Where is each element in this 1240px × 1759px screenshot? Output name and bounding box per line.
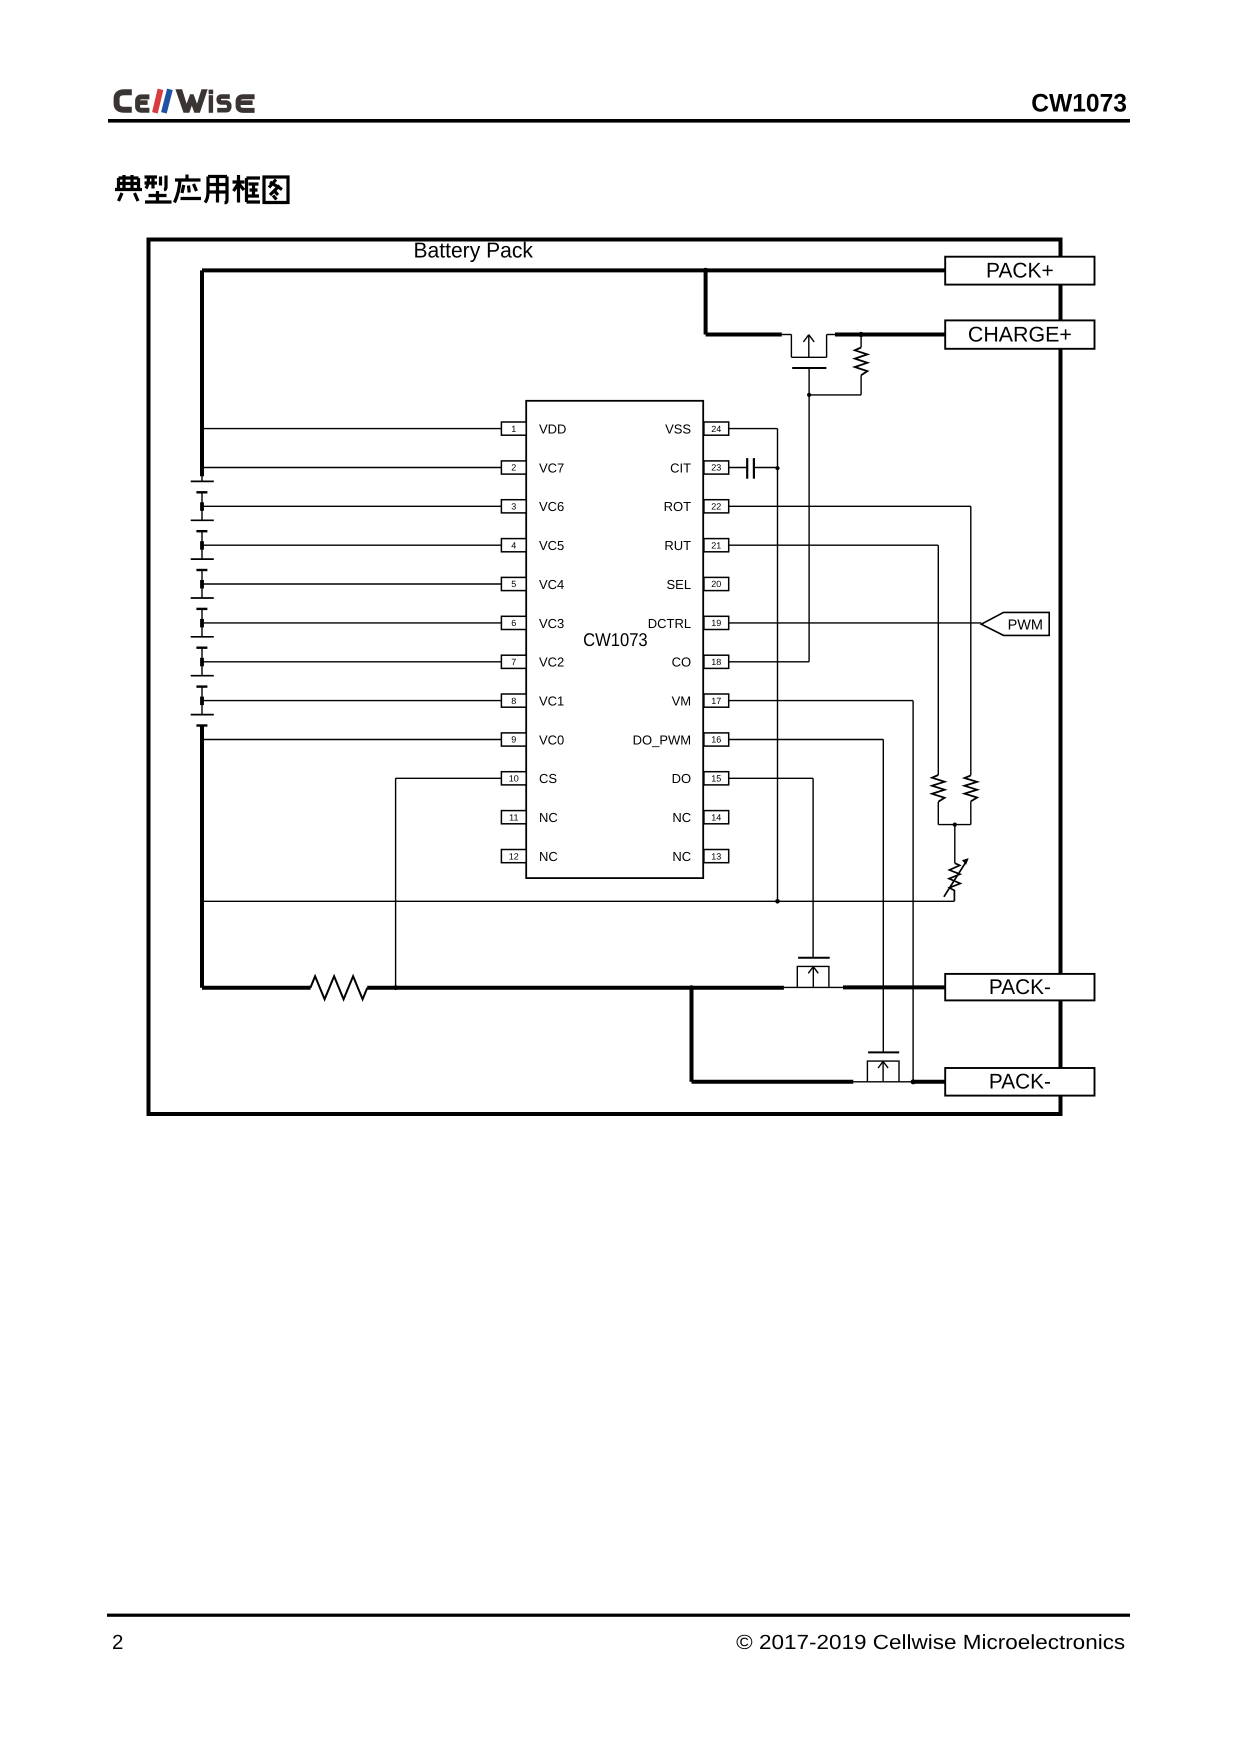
svg-text:24: 24 <box>711 424 721 434</box>
svg-text:10: 10 <box>509 774 519 784</box>
svg-text:9: 9 <box>511 735 516 745</box>
svg-text:CHARGE+: CHARGE+ <box>968 323 1072 347</box>
svg-text:VC7: VC7 <box>539 460 564 475</box>
svg-text:VM: VM <box>672 694 692 709</box>
svg-text:22: 22 <box>711 502 721 512</box>
svg-text:ROT: ROT <box>664 499 692 514</box>
svg-text:CW1073: CW1073 <box>1031 90 1127 118</box>
svg-text:VC6: VC6 <box>539 499 564 514</box>
svg-text:DO: DO <box>672 771 692 786</box>
svg-text:1: 1 <box>511 424 516 434</box>
svg-text:VC0: VC0 <box>539 732 564 747</box>
svg-text:CS: CS <box>539 771 557 786</box>
svg-text:VSS: VSS <box>665 422 691 437</box>
svg-text:© 2017-2019 Cellwise Microelec: © 2017-2019 Cellwise Microelectronics <box>736 1631 1125 1654</box>
svg-text:8: 8 <box>511 696 516 706</box>
svg-text:VC4: VC4 <box>539 577 564 592</box>
svg-text:PACK-: PACK- <box>989 975 1051 999</box>
svg-text:Battery Pack: Battery Pack <box>414 237 534 262</box>
svg-text:VC1: VC1 <box>539 694 564 709</box>
svg-text:4: 4 <box>511 540 516 550</box>
svg-text:RUT: RUT <box>664 538 691 553</box>
svg-text:17: 17 <box>711 696 721 706</box>
svg-text:5: 5 <box>511 579 516 589</box>
svg-text:PWM: PWM <box>1008 617 1043 633</box>
svg-text:15: 15 <box>711 774 721 784</box>
svg-text:NC: NC <box>539 849 558 864</box>
svg-text:6: 6 <box>511 618 516 628</box>
svg-text:NC: NC <box>672 849 691 864</box>
svg-text:2: 2 <box>511 463 516 473</box>
svg-text:CO: CO <box>672 655 692 670</box>
svg-text:NC: NC <box>672 810 691 825</box>
svg-text:DO_PWM: DO_PWM <box>633 732 692 747</box>
svg-text:VC5: VC5 <box>539 538 564 553</box>
svg-text:11: 11 <box>509 812 518 822</box>
svg-text:23: 23 <box>711 463 721 473</box>
svg-text:3: 3 <box>511 502 516 512</box>
svg-text:18: 18 <box>711 657 721 667</box>
svg-text:16: 16 <box>711 735 721 745</box>
svg-text:NC: NC <box>539 810 558 825</box>
svg-text:19: 19 <box>711 618 721 628</box>
svg-text:PACK+: PACK+ <box>986 259 1054 283</box>
svg-text:14: 14 <box>711 812 721 822</box>
svg-text:SEL: SEL <box>667 577 692 592</box>
svg-text:2: 2 <box>112 1631 123 1654</box>
svg-text:VDD: VDD <box>539 422 566 437</box>
svg-text:CIT: CIT <box>670 460 691 475</box>
svg-text:PACK-: PACK- <box>989 1070 1051 1094</box>
svg-text:VC2: VC2 <box>539 655 564 670</box>
svg-text:13: 13 <box>711 851 721 861</box>
svg-text:21: 21 <box>711 540 721 550</box>
svg-text:VC3: VC3 <box>539 616 564 631</box>
svg-text:7: 7 <box>511 657 516 667</box>
svg-text:CW1073: CW1073 <box>583 629 648 650</box>
svg-text:12: 12 <box>509 851 519 861</box>
svg-text:DCTRL: DCTRL <box>648 616 691 631</box>
svg-text:20: 20 <box>711 579 721 589</box>
